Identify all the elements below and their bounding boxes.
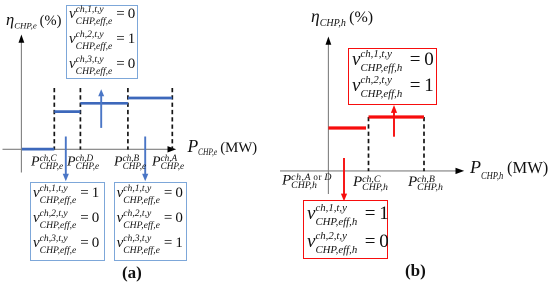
eq v(ch,1) = 1 [33, 183, 99, 208]
left tick label P(ch,C)_CHP,e [31, 154, 63, 171]
left y-axis arrowhead [19, 35, 25, 43]
left dashed line 3 [127, 88, 129, 150]
red down arrow [343, 158, 345, 196]
blue up arrow [100, 96, 102, 128]
eq v(ch,1) eff,e = 0 [69, 4, 135, 29]
right y-axis arrowhead [326, 37, 332, 45]
left y-axis label eta_CHP,e (%) [6, 12, 61, 30]
right x-axis label P_CHP,h (MW) [470, 158, 548, 182]
eq v(ch,1) eff,h = 1 [307, 201, 389, 229]
left tick label P(ch,D)_CHP,e [67, 154, 99, 171]
right y-axis label eta_CHP,h (%) [311, 8, 373, 29]
blue step 3 [128, 97, 172, 100]
left x-axis arrowhead [168, 146, 177, 152]
left tick label P(ch,A)_CHP,e [152, 154, 184, 171]
left dashed line 1 [53, 88, 55, 150]
left dashed line 4 [171, 88, 173, 150]
blue step 1 [54, 110, 80, 113]
eq v(ch,2) = 0 [33, 208, 99, 233]
right plot (b) y-axis [327, 43, 329, 194]
left bottom blue box 2 [114, 182, 188, 261]
left plot (a) y-axis [20, 41, 22, 173]
subfigure label (b) [405, 262, 426, 279]
blue step 2 [80, 102, 128, 105]
eq v(ch,2) eff,h = 1 [352, 73, 434, 101]
eq v(ch,2) = 0 [117, 208, 183, 233]
left bottom blue box 1 [30, 182, 105, 261]
eq v(ch,3) eff,e = 0 [69, 54, 135, 79]
eq v(ch,2) eff,e = 1 [69, 29, 135, 54]
eq v(ch,2) eff,h = 0 [307, 229, 389, 257]
right plot x-axis [280, 170, 459, 172]
left dashed line 2 [79, 88, 81, 150]
right tick label P(ch,A or D)_CHP,h [282, 173, 332, 192]
left x-axis label P_CHP,e (MW) [188, 138, 257, 159]
right top red box [348, 48, 438, 105]
right tick label P(ch,B)_CHP,h [408, 175, 443, 193]
eq v(ch,3) = 0 [33, 233, 99, 258]
blue step on axis (zero segment) [22, 148, 54, 151]
red step A [328, 126, 366, 129]
subfigure label (a) [122, 264, 142, 281]
right x-axis arrowhead [456, 168, 465, 174]
right tick label P(ch,C)_CHP,h [353, 175, 388, 193]
left top blue box [66, 5, 138, 80]
eq v(ch,1) = 0 [117, 183, 183, 208]
left plot x-axis [3, 148, 171, 150]
right dashed line 2 [423, 117, 425, 171]
red step B [369, 115, 425, 118]
red up arrow [393, 112, 395, 137]
blue down arrow 1 [65, 137, 67, 176]
right bottom red box [303, 200, 389, 259]
left tick label P(ch,B)_CHP,e [114, 154, 146, 171]
eq v(ch,3) = 1 [117, 233, 183, 258]
right dashed line 1 [368, 117, 370, 171]
blue down arrow 2 [144, 137, 146, 176]
eq v(ch,1) eff,h = 0 [352, 47, 434, 75]
